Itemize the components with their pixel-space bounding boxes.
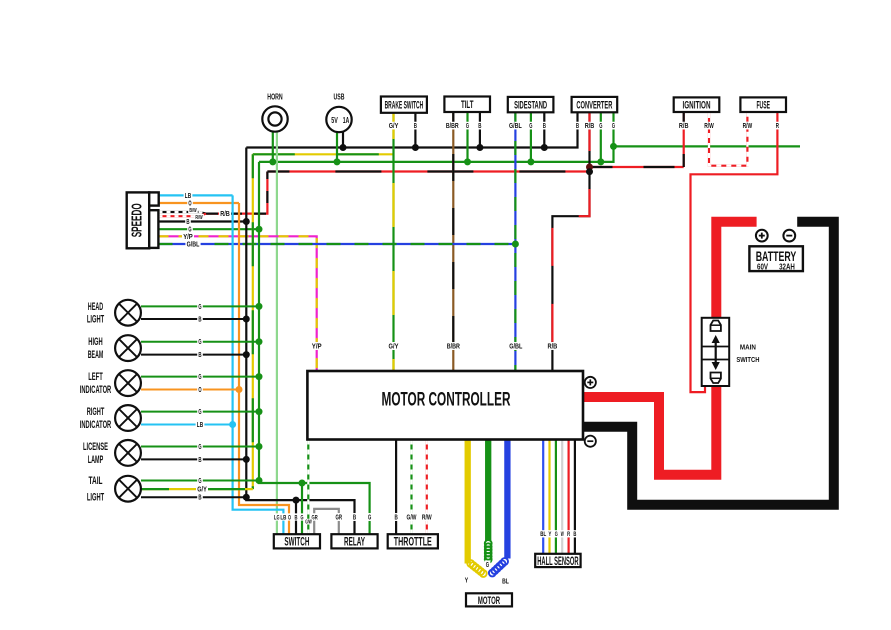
svg-text:B/BR: B/BR: [446, 123, 459, 130]
svg-text:1A: 1A: [343, 116, 350, 125]
svg-text:LEFT: LEFT: [88, 371, 103, 383]
svg-text:O: O: [288, 514, 291, 521]
svg-text:B: B: [543, 123, 546, 130]
svg-text:LB: LB: [185, 193, 191, 200]
svg-text:FUSE: FUSE: [756, 100, 770, 112]
svg-text:LAMP: LAMP: [88, 454, 104, 466]
svg-text:G: G: [368, 513, 372, 522]
svg-text:G: G: [198, 444, 202, 451]
svg-text:GR: GR: [336, 513, 343, 522]
svg-text:B/W: B/W: [189, 208, 197, 214]
svg-text:B/BR: B/BR: [447, 342, 461, 351]
svg-text:HALL SENSOR: HALL SENSOR: [537, 554, 578, 568]
svg-text:G: G: [198, 339, 202, 346]
svg-text:5V: 5V: [331, 116, 338, 125]
svg-text:SPEEDO: SPEEDO: [129, 203, 146, 237]
svg-text:R/W: R/W: [704, 123, 714, 130]
svg-text:G: G: [555, 531, 558, 538]
svg-text:LIGHT: LIGHT: [87, 313, 105, 325]
svg-text:O: O: [188, 200, 192, 207]
svg-text:LICENSE: LICENSE: [83, 441, 108, 453]
svg-text:USB: USB: [334, 93, 345, 102]
svg-text:Y: Y: [465, 576, 468, 585]
svg-text:B: B: [186, 219, 189, 226]
svg-text:G/W: G/W: [407, 513, 417, 522]
svg-text:R: R: [776, 123, 779, 130]
svg-text:SIDESTAND: SIDESTAND: [514, 99, 547, 111]
svg-text:G: G: [301, 514, 304, 521]
svg-text:B: B: [198, 495, 201, 502]
svg-text:LB: LB: [280, 514, 286, 521]
svg-text:G/BL: G/BL: [509, 342, 523, 351]
svg-text:R/B: R/B: [679, 123, 689, 130]
svg-text:SWITCH: SWITCH: [736, 355, 759, 364]
svg-text:G: G: [612, 123, 616, 130]
svg-text:THROTTLE: THROTTLE: [394, 536, 432, 548]
svg-text:G/Y: G/Y: [197, 487, 207, 494]
svg-text:INDICATOR: INDICATOR: [80, 384, 112, 396]
svg-text:LG: LG: [274, 514, 280, 521]
svg-text:B: B: [198, 316, 201, 323]
svg-text:Y/P: Y/P: [312, 342, 322, 351]
svg-text:MOTOR CONTROLLER: MOTOR CONTROLLER: [382, 390, 511, 411]
svg-text:32AH: 32AH: [779, 262, 795, 272]
svg-text:G: G: [599, 123, 603, 130]
svg-text:CONVERTER: CONVERTER: [576, 99, 612, 111]
svg-text:BEAM: BEAM: [88, 349, 104, 361]
svg-text:BL: BL: [540, 531, 546, 538]
svg-text:MAIN: MAIN: [740, 342, 756, 351]
svg-text:Y/P: Y/P: [183, 234, 193, 241]
svg-text:R/B: R/B: [220, 211, 230, 218]
svg-text:BRAKE SWITCH: BRAKE SWITCH: [385, 100, 424, 112]
svg-text:TAIL: TAIL: [89, 475, 103, 487]
svg-text:B: B: [394, 513, 397, 522]
svg-text:G: G: [529, 123, 533, 130]
svg-text:G: G: [486, 560, 490, 569]
svg-text:LB: LB: [197, 422, 203, 429]
svg-text:Y: Y: [548, 531, 551, 538]
svg-text:R/W: R/W: [743, 123, 753, 130]
svg-text:BL: BL: [502, 577, 509, 586]
svg-text:G: G: [198, 478, 202, 485]
svg-text:G: G: [198, 374, 202, 381]
svg-text:G/Y: G/Y: [389, 342, 399, 351]
svg-text:INDICATOR: INDICATOR: [80, 419, 112, 431]
svg-text:B: B: [478, 123, 481, 130]
svg-text:O: O: [198, 387, 202, 394]
svg-text:G/BL: G/BL: [187, 241, 200, 248]
svg-text:B: B: [353, 513, 356, 522]
svg-text:G/Y: G/Y: [389, 123, 399, 130]
svg-text:R/W: R/W: [422, 513, 432, 522]
svg-text:B: B: [295, 514, 298, 521]
svg-text:B: B: [198, 352, 201, 359]
svg-text:60V: 60V: [757, 262, 768, 272]
svg-text:G: G: [466, 123, 470, 130]
svg-text:HORN: HORN: [267, 93, 283, 102]
svg-text:RELAY: RELAY: [344, 536, 365, 548]
svg-text:R/B: R/B: [547, 342, 557, 351]
svg-text:IGNITION: IGNITION: [683, 100, 711, 112]
svg-text:SWITCH: SWITCH: [284, 536, 309, 548]
svg-text:TILT: TILT: [461, 99, 474, 111]
svg-text:G: G: [198, 304, 202, 311]
svg-text:W: W: [561, 531, 564, 538]
svg-text:R/W: R/W: [195, 215, 203, 221]
svg-text:RIGHT: RIGHT: [87, 406, 105, 418]
svg-text:R: R: [567, 531, 570, 538]
svg-text:B: B: [414, 123, 417, 130]
svg-text:G: G: [198, 409, 202, 416]
svg-text:HIGH: HIGH: [88, 336, 103, 348]
svg-text:G/W: G/W: [305, 519, 312, 525]
svg-text:LIGHT: LIGHT: [87, 492, 105, 504]
svg-text:B: B: [573, 531, 576, 538]
svg-text:B: B: [576, 123, 579, 130]
svg-text:B: B: [198, 457, 201, 464]
svg-text:R/B: R/B: [585, 123, 595, 130]
svg-text:G/BL: G/BL: [509, 123, 522, 130]
svg-text:HEAD: HEAD: [88, 301, 104, 313]
svg-text:MOTOR: MOTOR: [478, 595, 500, 607]
